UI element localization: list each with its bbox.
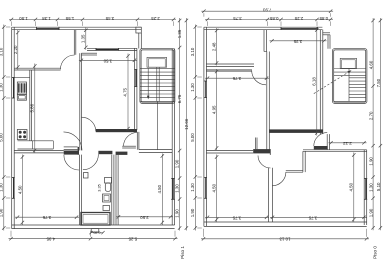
svg-text:1.35: 1.35	[81, 34, 86, 43]
svg-text:1.55: 1.55	[65, 16, 74, 21]
svg-text:3.50: 3.50	[103, 58, 112, 63]
svg-text:10.13: 10.13	[279, 237, 291, 242]
svg-text:5.25: 5.25	[128, 237, 137, 242]
svg-text:1.38: 1.38	[42, 16, 51, 21]
svg-text:4.75: 4.75	[123, 87, 128, 96]
svg-text:5.00: 5.00	[0, 133, 4, 142]
svg-text:3.75: 3.75	[233, 16, 242, 21]
svg-text:3.50: 3.50	[140, 215, 149, 220]
svg-text:3.35: 3.35	[293, 39, 302, 44]
svg-text:2.70: 2.70	[368, 111, 373, 120]
svg-text:6.18: 6.18	[312, 77, 317, 86]
svg-text:4.50: 4.50	[349, 182, 354, 191]
svg-text:4.95: 4.95	[46, 237, 55, 242]
svg-text:2.20: 2.20	[13, 45, 18, 54]
svg-text:Piso 1: Piso 1	[180, 246, 185, 259]
svg-text:3.75: 3.75	[308, 215, 317, 220]
svg-text:1.90: 1.90	[174, 159, 179, 168]
svg-text:12.66: 12.66	[184, 118, 189, 130]
svg-text:1.30: 1.30	[174, 184, 179, 193]
svg-text:7.50: 7.50	[376, 78, 381, 87]
svg-text:3.45: 3.45	[105, 16, 114, 21]
svg-text:1.90: 1.90	[0, 208, 4, 217]
svg-text:1.30: 1.30	[0, 83, 4, 92]
svg-text:4.50: 4.50	[17, 185, 22, 194]
svg-text:3.10: 3.10	[0, 47, 4, 56]
svg-text:3.75: 3.75	[232, 76, 241, 81]
svg-text:3.75: 3.75	[232, 215, 241, 220]
svg-text:2.12: 2.12	[343, 141, 352, 146]
svg-text:3.75: 3.75	[42, 215, 51, 220]
svg-text:0.85: 0.85	[269, 16, 278, 21]
svg-text:1.90: 1.90	[174, 209, 179, 218]
svg-text:4.95: 4.95	[211, 105, 216, 114]
svg-text:1.30: 1.30	[190, 83, 195, 92]
svg-text:2.25: 2.25	[151, 16, 160, 21]
svg-text:2.48: 2.48	[211, 42, 216, 51]
svg-text:Piso 0: Piso 0	[373, 246, 378, 259]
svg-text:4.50: 4.50	[157, 184, 162, 193]
svg-text:1.35: 1.35	[177, 29, 182, 38]
svg-text:6.75: 6.75	[177, 94, 182, 103]
svg-text:5.10: 5.10	[376, 182, 381, 191]
svg-text:1.30: 1.30	[368, 183, 373, 192]
svg-text:1.30: 1.30	[0, 183, 4, 192]
svg-text:7.93: 7.93	[262, 8, 271, 13]
svg-text:0.30: 0.30	[94, 230, 101, 234]
svg-text:1.50: 1.50	[19, 16, 28, 21]
svg-text:1.90: 1.90	[368, 157, 373, 166]
svg-text:0.85: 0.85	[319, 16, 328, 21]
svg-text:1.90: 1.90	[190, 208, 195, 217]
svg-text:4.60: 4.60	[368, 60, 373, 69]
svg-text:3.35: 3.35	[97, 184, 101, 191]
svg-text:1.30: 1.30	[190, 183, 195, 192]
svg-text:3.10: 3.10	[190, 47, 195, 56]
svg-text:2.25: 2.25	[294, 16, 303, 21]
svg-text:1.90: 1.90	[368, 208, 373, 217]
svg-text:5.86: 5.86	[30, 103, 35, 112]
svg-text:4.50: 4.50	[211, 183, 216, 192]
svg-text:5.00: 5.00	[190, 133, 195, 142]
